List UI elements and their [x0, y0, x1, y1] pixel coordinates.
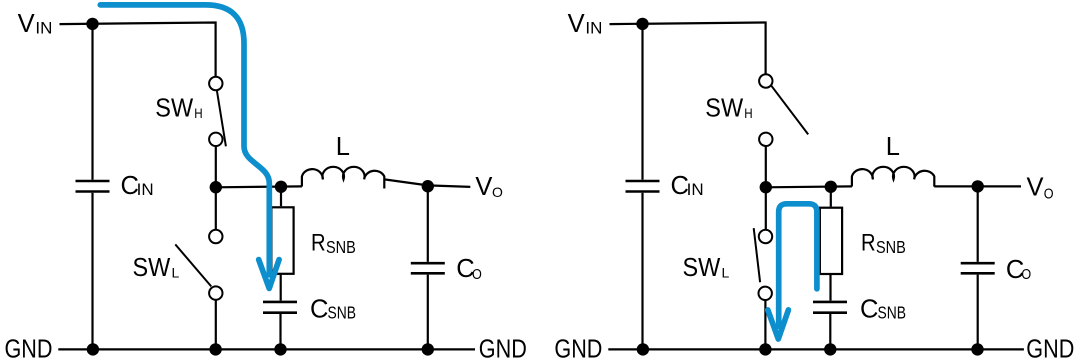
svg-text:V: V [18, 10, 35, 38]
svg-text:O: O [472, 266, 482, 283]
svg-text:IN: IN [35, 19, 52, 38]
svg-text:O: O [1021, 266, 1031, 283]
resistor RSNB (right) [820, 208, 842, 274]
wire: ground rail (left) [58, 348, 475, 350]
svg-text:H: H [194, 105, 202, 121]
svg-text:IN: IN [137, 180, 154, 199]
capacitor CIN (right) [626, 181, 660, 192]
junction dot ground CO (left) [422, 343, 434, 355]
wire: RSNB to CSNB (right) [829, 274, 831, 301]
wire: CO to ground [427, 275, 429, 350]
svg-text:SNB: SNB [328, 302, 357, 322]
wire: switch node horizontal (right) [766, 185, 852, 188]
wire: CO to ground (right) [977, 275, 979, 350]
svg-text:C: C [310, 296, 328, 324]
svg-text:SNB: SNB [326, 237, 356, 257]
svg-text:V: V [568, 10, 585, 38]
inductor L (left) [302, 167, 384, 189]
junction dot VIN (right) [636, 18, 648, 30]
capacitor CO (left) [411, 263, 445, 273]
wire: CSNB to ground (right) [829, 314, 831, 349]
svg-text:H: H [744, 105, 752, 121]
svg-text:GND: GND [1026, 336, 1074, 363]
junction dot VIN (left) [86, 18, 98, 30]
current path arrow (left, SWH on) [100, 5, 279, 289]
switch SWH (left, closed) [209, 77, 226, 147]
wire: node to RSNB [280, 187, 282, 206]
wire: right input rail lower [641, 193, 643, 350]
svg-text:SNB: SNB [876, 237, 906, 257]
svg-text:O: O [1044, 185, 1054, 202]
junction dot switch node SW (left) [210, 181, 222, 193]
capacitor CO (right) [961, 263, 995, 273]
wire: left input rail upper [91, 24, 93, 180]
junction dot ground CO (right) [971, 343, 983, 355]
svg-text:GND: GND [5, 336, 53, 363]
resistor RSNB (left) [271, 207, 293, 273]
junction dot ground SWL (right) [759, 343, 771, 355]
wire: inductor to VO (left, slanted) [384, 179, 470, 187]
capacitor CSNB (right) [813, 302, 847, 313]
wire: node to RSNB (right) [830, 187, 832, 207]
wire: VIN top rail (right) [610, 23, 766, 75]
svg-text:L: L [886, 133, 900, 161]
junction dot switch node SW (right) [760, 181, 772, 193]
switch SWL (left, open) [175, 187, 222, 349]
svg-text:SW: SW [705, 95, 743, 123]
switch SWH (right, open) [759, 74, 808, 146]
junction dot switch node RSNB (right) [825, 181, 837, 193]
svg-text:R: R [861, 229, 876, 256]
wire: switch node horizontal [216, 185, 302, 188]
svg-text:V: V [1027, 174, 1044, 202]
wire: left input rail lower [91, 193, 93, 350]
svg-text:R: R [311, 229, 326, 256]
svg-text:SNB: SNB [878, 302, 907, 322]
svg-text:SW: SW [683, 254, 721, 282]
junction dot ground CSNB (left) [274, 343, 286, 355]
inductor L (right) [852, 167, 934, 187]
svg-text:V: V [475, 173, 492, 201]
wire: inductor to VO (right) [934, 185, 1021, 187]
svg-text:O: O [492, 184, 503, 200]
svg-text:IN: IN [687, 180, 704, 199]
current path arrow (right, SWL on) [768, 204, 817, 339]
junction dot ground SWL (left) [209, 343, 221, 355]
svg-text:SW: SW [133, 254, 171, 282]
wire: CSNB to ground [279, 314, 281, 349]
svg-text:C: C [860, 296, 878, 324]
junction dot switch node RSNB (left) [275, 181, 287, 193]
junction dot ground CIN (right) [637, 343, 649, 355]
svg-text:GND: GND [554, 336, 602, 363]
capacitor CIN (left) [76, 181, 110, 192]
svg-text:IN: IN [585, 19, 602, 38]
wire: ground rail (right) [608, 348, 1024, 350]
wire: VO node to CO [427, 186, 429, 262]
junction dot ground CSNB (right) [824, 343, 836, 355]
wire: SWH to switch node [215, 146, 217, 188]
wire: RSNB to CSNB [280, 274, 282, 301]
junction dot VO (right) [972, 180, 984, 192]
junction dot ground CIN (left) [87, 343, 99, 355]
switch SWL (right, closed) [754, 187, 773, 349]
svg-text:GND: GND [479, 336, 527, 363]
wire: VIN top rail (left) [60, 23, 216, 77]
junction dot VO (left) [422, 180, 434, 192]
svg-text:L: L [336, 133, 350, 161]
svg-text:SW: SW [155, 95, 193, 123]
wire: SWH to switch node (right) [765, 146, 767, 188]
capacitor CSNB (left) [263, 302, 297, 313]
wire: right input rail upper [641, 24, 643, 180]
svg-text:L: L [172, 264, 180, 280]
wire: VO node to CO (right) [977, 186, 979, 262]
svg-text:L: L [722, 264, 730, 280]
